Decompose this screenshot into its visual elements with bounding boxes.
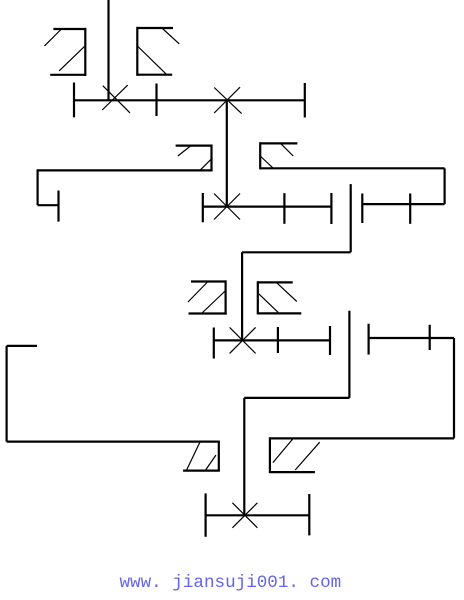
shaft III tick bbox=[277, 327, 279, 353]
level II long line right bbox=[260, 167, 445, 169]
big bracket vertical bbox=[5, 346, 7, 442]
bearing box 3R top bbox=[257, 281, 293, 283]
bearing box 3L right bbox=[225, 280, 227, 314]
big bracket stub bbox=[7, 345, 37, 347]
bearing box 3R left bbox=[257, 281, 259, 314]
shaft I left end cap bbox=[73, 83, 75, 118]
sleeve 2 vertical bbox=[348, 311, 350, 398]
bearing box 1R bottom bbox=[137, 74, 173, 76]
shaft III right end cap bbox=[368, 324, 370, 355]
shaft II right tick bbox=[409, 194, 411, 224]
shaft II stub bracket vertical bbox=[36, 169, 38, 205]
bearing box 1L right bbox=[84, 28, 86, 76]
hatch bearing 1R bbox=[162, 28, 179, 44]
sleeve 1 horizontal bbox=[242, 251, 351, 253]
level II right drop bbox=[444, 168, 446, 204]
shaft III right tick bbox=[429, 325, 431, 350]
gear X shaft I pinion bbox=[103, 86, 130, 113]
bearing box 3R bottom bbox=[257, 312, 301, 314]
hatch bearing 4R bbox=[273, 439, 293, 463]
shaft III end cap bbox=[329, 326, 331, 355]
gear X shaft III bbox=[230, 327, 256, 353]
bearing box 4R bottom bbox=[270, 471, 315, 473]
shaft IV left end cap bbox=[205, 493, 207, 536]
bearing box 3L bottom bbox=[189, 312, 227, 314]
shaft III left end cap bbox=[213, 328, 215, 359]
sleeve 1 drop to shaft III bbox=[241, 252, 243, 340]
shaft II main segment bbox=[203, 206, 332, 208]
level II long line left bbox=[38, 169, 212, 171]
bearing box 2R top bbox=[260, 142, 298, 144]
bearing box 1R left bbox=[136, 27, 138, 76]
shaft II right segment bbox=[362, 203, 444, 205]
bearing box 2L top bbox=[176, 145, 212, 147]
input shaft vertical bbox=[107, 0, 109, 100]
sleeve 2 horizontal bbox=[244, 397, 349, 399]
big bracket bottom / box 4L top bbox=[7, 441, 220, 443]
gear X shaft IV bbox=[232, 503, 257, 528]
gear X shaft II bbox=[214, 194, 240, 220]
shaft II end tick bbox=[330, 193, 332, 224]
shaft III left segment bbox=[214, 339, 330, 341]
bearing box 2L right bbox=[210, 145, 212, 172]
hatch bearing 3L bbox=[188, 283, 207, 303]
shaft IV right end cap bbox=[308, 494, 310, 535]
shaft II tick bbox=[283, 193, 285, 224]
bearing box 4L right bbox=[218, 442, 220, 472]
right side drop bbox=[453, 338, 455, 438]
watermark bbox=[120, 573, 342, 593]
shaft II left end cap bbox=[202, 193, 204, 222]
level IV right top line bbox=[270, 437, 455, 439]
bearing box 2R left bbox=[259, 142, 261, 169]
bearing box 4L bottom bbox=[183, 470, 220, 472]
hatch bearing 4L bbox=[186, 442, 200, 470]
hatch bearing 2L bbox=[178, 146, 191, 156]
shaft II stub end cap bbox=[57, 191, 59, 222]
shaft II right end tick bbox=[361, 194, 363, 224]
shaft III right segment bbox=[369, 337, 454, 339]
shaft I horizontal bbox=[74, 99, 305, 101]
sleeve 1 vertical bbox=[350, 184, 352, 252]
mesh line gear I-II bbox=[226, 100, 228, 206]
bearing box 3L top bbox=[191, 280, 227, 282]
shaft IV bbox=[206, 514, 310, 516]
shaft I right end cap bbox=[304, 83, 306, 118]
bearing box 1L bottom bbox=[50, 74, 86, 76]
hatch bearing 1L bbox=[45, 30, 61, 46]
bearing box 4R left bbox=[269, 437, 271, 473]
shaft II stub horizontal bbox=[38, 204, 59, 206]
hatch bearing 2R bbox=[281, 143, 294, 156]
gear X shaft I second bbox=[214, 88, 241, 114]
shaft I tick bbox=[155, 84, 157, 117]
sleeve 2 drop to shaft IV bbox=[243, 398, 245, 515]
hatch bearing 3R bbox=[277, 283, 297, 301]
bearing box 1R top bbox=[137, 27, 173, 29]
bearing box 1L top bbox=[53, 28, 86, 30]
